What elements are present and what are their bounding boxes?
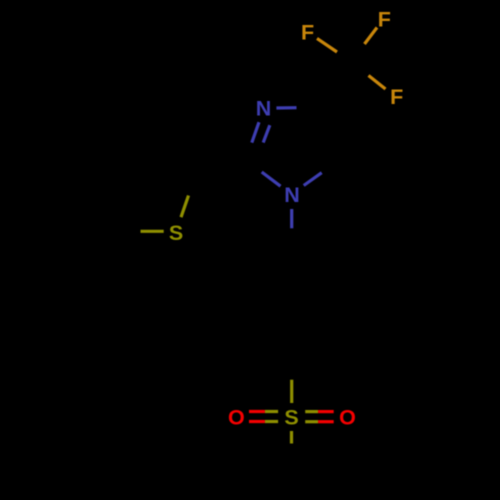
bond S=O left, lower line S half — [265, 420, 278, 423]
bond C2-C2' link to thiophene — [196, 160, 244, 174]
svg-text:N: N — [256, 97, 272, 121]
oxygen half-bonds (red) — [249, 412, 334, 422]
bond S=O right, lower line S half — [305, 420, 318, 423]
bond S=O left, upper line O half — [249, 410, 265, 413]
bond C-F top half — [365, 28, 378, 45]
bond C4-C5 imidazole — [317, 108, 340, 160]
svg-text:F: F — [301, 20, 314, 44]
bond S-CH3 half (down) — [290, 431, 293, 444]
imidazole N3 half-bonds (blue) — [252, 108, 322, 229]
thiophene ring carbons — [159, 145, 196, 174]
sulfonyl S half-bonds (olive) — [265, 380, 318, 444]
bond C4-CF3 — [317, 63, 354, 108]
svg-text:S: S — [284, 406, 298, 430]
svg-text:S: S — [169, 221, 183, 245]
benzene ring — [292, 248, 340, 276]
bond N3=C2 double, inner line half — [263, 125, 270, 142]
bond C-F bottom-right half — [369, 76, 386, 90]
fluorine half-bonds (gold) — [317, 28, 386, 90]
bond S-C5' half — [141, 230, 164, 233]
bond N1-phenyl half — [290, 209, 293, 228]
bond S=O left, upper line S half — [265, 410, 278, 413]
bond N1-C5 half — [304, 173, 322, 186]
svg-text:O: O — [339, 406, 356, 430]
bond S-C4'' half (up to ring) — [290, 380, 293, 403]
svg-text:F: F — [378, 8, 391, 32]
bond S=O left, lower line O half — [249, 420, 265, 423]
bond N3-C4 half — [276, 106, 296, 110]
svg-text:O: O — [228, 406, 245, 430]
bond S=O right, lower line O half — [318, 420, 334, 423]
svg-text:N: N — [284, 183, 300, 207]
svg-text:F: F — [390, 85, 403, 109]
bond C-F left half — [317, 38, 337, 52]
bond S-C2' half — [181, 196, 189, 218]
bond S=O right, upper line O half — [318, 410, 334, 413]
bond S=O right, upper line S half — [305, 410, 318, 413]
bond N3=C2 double, main line half — [252, 122, 259, 142]
bond N1-C2 half — [262, 172, 281, 186]
wire: carbon skeleton (black on black, invisible as in reference) — [110, 63, 353, 359]
thiophene S half-bonds (olive) — [141, 196, 189, 232]
